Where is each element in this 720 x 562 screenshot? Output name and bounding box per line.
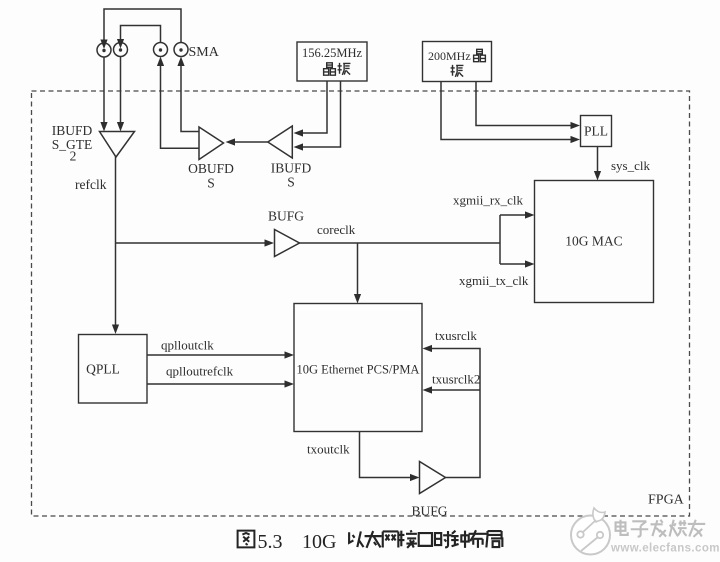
svg-text:txusrclk2: txusrclk2: [432, 372, 480, 387]
arrowhead into IBUFDS N: [294, 143, 304, 150]
svg-text:IBUFD: IBUFD: [52, 123, 93, 138]
svg-text:FPGA: FPGA: [648, 493, 685, 508]
watermark logo (elecfans): [571, 508, 610, 555]
svg-text:S: S: [287, 175, 295, 190]
arrowhead into J4 bottom: [177, 57, 184, 67]
arrowhead into PCS/PMA top: [354, 294, 361, 304]
arrowhead into MAC tx: [525, 260, 535, 267]
X1 value label: [302, 46, 363, 60]
svg-text:S: S: [207, 176, 215, 191]
wire: J2 to IBUFDS_GTE_2 input N: [120, 57, 122, 124]
label IBUFDS: [271, 161, 312, 190]
svg-text:2: 2: [70, 149, 77, 164]
caption CJK: yi tai wang jie kou shi zhong bu ju: [349, 530, 502, 548]
arrowhead into QPLL top: [112, 325, 119, 335]
wire: qplloutclk QPLL to PCS/PMA: [147, 354, 285, 356]
buffer IBUFDS: [268, 126, 293, 158]
arrowhead into OBUFDS tip: [226, 138, 236, 145]
SMA connector J3: [154, 43, 168, 57]
arrowhead into J2: [117, 39, 124, 49]
oscillator X2 200MHz: [423, 42, 492, 82]
X2 value label: [428, 49, 471, 63]
svg-text:qplloutclk: qplloutclk: [161, 338, 214, 353]
svg-text:10G MAC: 10G MAC: [565, 234, 622, 249]
PLL block U3: [581, 116, 612, 147]
svg-text:refclk: refclk: [75, 177, 107, 192]
block 10G Ethernet PCS/PMA: [294, 304, 422, 432]
wire: loopback J4 top to J1 top: [104, 9, 181, 43]
arrowhead at IBUFDS_GTE_2 P: [100, 122, 107, 132]
wire: X1 pin1 to IBUFDS input P: [302, 81, 327, 133]
arrowhead into BUFG: [265, 239, 275, 246]
arrowhead into PLL in1: [571, 122, 581, 129]
svg-text:5.3: 5.3: [258, 531, 283, 553]
arrowhead at IBUFDS_GTE_2 N: [117, 122, 124, 132]
oscillator X1 156.25MHz: [297, 42, 367, 81]
wire: refclk tap to BUFG input: [116, 242, 267, 244]
buffer BUFG2: [420, 462, 446, 494]
svg-text:BUFG: BUFG: [268, 209, 304, 224]
arrowhead into PCS/PMA qplloutclk: [285, 351, 295, 358]
svg-text:10G: 10G: [302, 531, 336, 553]
arrowhead into BUFG2: [410, 474, 420, 481]
svg-text:xgmii_tx_clk: xgmii_tx_clk: [459, 273, 529, 288]
wire: X2 pin2 to PLL in1: [476, 82, 571, 126]
svg-text:200MHz: 200MHz: [428, 49, 471, 63]
wire: loopback J3 top to J2 top: [121, 26, 161, 43]
X2 label CJK jing / zhen: [451, 49, 486, 77]
wire: J1 to IBUFDS_GTE_2 input P: [103, 57, 105, 123]
wire: OBUFDS out P up to J4: [181, 65, 199, 132]
arrowhead into PLL in2: [571, 136, 581, 143]
wire: X1 pin2 to IBUFDS input N: [302, 81, 341, 147]
svg-text:txusrclk: txusrclk: [435, 328, 477, 343]
wire: coreclk branch down to PCS/PMA top: [357, 243, 359, 295]
svg-text:txoutclk: txoutclk: [307, 442, 350, 457]
arrowhead into PCS/PMA qplloutrefclk: [285, 380, 295, 387]
FPGA boundary (dashed box): [32, 91, 690, 516]
arrowhead into IBUFDS P: [294, 129, 304, 136]
wire: sys_clk PLL to 10G MAC: [597, 147, 599, 173]
wire: coreclk net BUFG out to MAC bracket: [300, 242, 501, 244]
arrowhead into MAC top: [594, 171, 601, 181]
svg-text:www.elecfans.com: www.elecfans.com: [610, 543, 720, 555]
svg-text:156.25MHz: 156.25MHz: [302, 46, 363, 60]
wire: bracket vertical at MAC inputs: [499, 215, 501, 264]
wire: txusrclk BUFG2 out up and left into PCS/PMA: [431, 349, 480, 478]
label OBUFDS: [188, 161, 234, 191]
wire: txusrclk2 tap into PCS/PMA: [431, 389, 480, 391]
buffer IBUFDS_GTE_2: [100, 132, 135, 158]
wire: refclk net (IBUFDS_GTE_2 out down to QPLL): [115, 156, 117, 326]
svg-text:IBUFD: IBUFD: [271, 161, 312, 176]
watermark CJK text: dian zi fa shao you: [616, 520, 706, 537]
svg-text:OBUFD: OBUFD: [188, 161, 234, 176]
wire: OBUFDS out N up to J3: [161, 65, 200, 148]
SMA connector J1: [97, 43, 111, 57]
arrowhead into PCS/PMA txusrclk2: [423, 386, 433, 393]
block 10G MAC: [535, 181, 654, 303]
wire: qplloutrefclk QPLL to PCS/PMA: [147, 383, 285, 385]
wire: X2 pin1 to PLL in2: [441, 82, 571, 140]
svg-text:QPLL: QPLL: [86, 362, 120, 377]
arrowhead into J1: [100, 40, 107, 50]
wire: txoutclk PCS/PMA bottom to BUFG2: [360, 432, 412, 478]
X1 label CJK jing zhen: [324, 63, 351, 75]
caption figure number: [238, 531, 255, 548]
svg-text:10G Ethernet PCS/PMA: 10G Ethernet PCS/PMA: [297, 363, 420, 377]
SMA connector J2: [114, 43, 128, 57]
svg-text:coreclk: coreclk: [317, 222, 356, 237]
svg-text:sys_clk: sys_clk: [611, 158, 651, 173]
svg-text:BUFG: BUFG: [411, 504, 447, 519]
wire: xgmii_rx_clk segment: [500, 214, 526, 216]
arrowhead into PCS/PMA txusrclk: [423, 345, 433, 352]
svg-text:qplloutrefclk: qplloutrefclk: [166, 364, 234, 379]
label IBUFDS_GTE_2: [52, 123, 93, 164]
buffer OBUFDS: [199, 127, 224, 160]
arrowhead into J3 bottom: [157, 57, 164, 67]
svg-text:SMA: SMA: [189, 45, 220, 60]
svg-text:xgmii_rx_clk: xgmii_rx_clk: [453, 193, 524, 208]
SMA connector J4: [174, 43, 188, 57]
svg-text:PLL: PLL: [584, 124, 608, 139]
buffer BUFG (coreclk): [275, 230, 300, 257]
QPLL block: [79, 335, 148, 404]
wire: xgmii_tx_clk segment: [500, 263, 526, 265]
wire: IBUFDS out to OBUFDS in: [234, 141, 268, 143]
arrowhead into MAC rx: [525, 211, 535, 218]
